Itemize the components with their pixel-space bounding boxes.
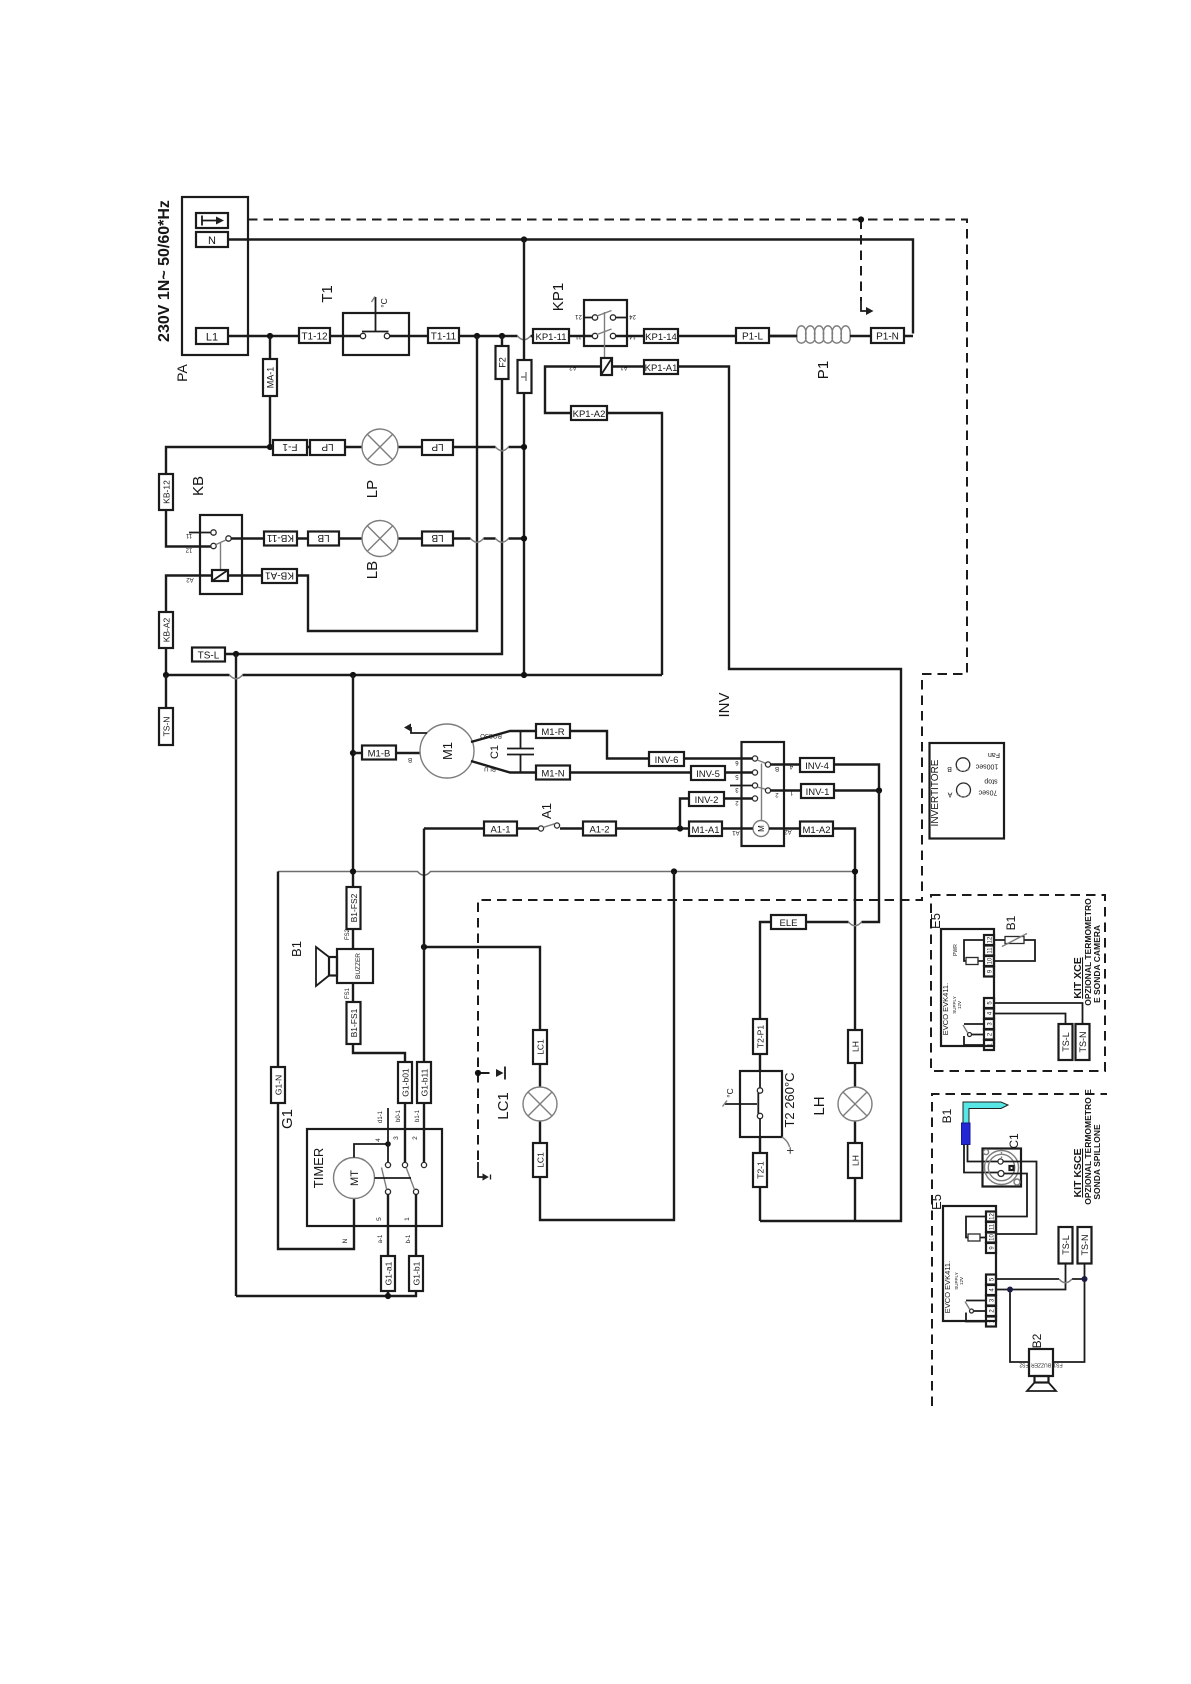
node TS-N/B2 — [1082, 1276, 1088, 1282]
label P1-N — [871, 328, 904, 343]
svg-text:TS-N: TS-N — [1078, 1032, 1088, 1053]
terminal TS-N — [165, 675, 167, 744]
wire hop over N fuse line — [518, 336, 531, 340]
label LB right — [422, 532, 453, 546]
svg-text:E SONDA CAMERA: E SONDA CAMERA — [1092, 925, 1102, 1003]
wire KB coil A1 to T1 feed — [228, 336, 477, 631]
svg-text:FS1: FS1 — [345, 987, 351, 999]
label P1-L — [736, 328, 769, 343]
svg-text:MA-1: MA-1 — [266, 367, 276, 389]
chassis earth arrow (bottom of dashed) — [478, 1162, 483, 1177]
svg-text:LP: LP — [364, 480, 381, 498]
svg-text:LH: LH — [811, 1096, 828, 1115]
wire A1-2 to fan — [560, 827, 753, 829]
svg-text:EVCO EVK411.: EVCO EVK411. — [943, 1261, 952, 1313]
svg-text:A1: A1 — [539, 803, 554, 819]
svg-text:LH: LH — [851, 1041, 861, 1052]
svg-text:KP1: KP1 — [550, 283, 567, 311]
wire N line — [228, 240, 913, 334]
label LB left — [308, 532, 339, 546]
internal sensor loop — [964, 940, 984, 961]
wire terminal4 to TS-L and B2 — [996, 1264, 1066, 1363]
label INV-6 — [649, 752, 684, 766]
svg-text:°C: °C — [379, 298, 389, 308]
svg-text:INV-6: INV-6 — [655, 755, 679, 766]
svg-text:KP1-14: KP1-14 — [645, 332, 677, 343]
terminal 1 — [986, 1317, 996, 1327]
thermostat T2 — [740, 1071, 782, 1137]
node bus/neutral drop — [521, 672, 527, 678]
svg-text:FS1: FS1 — [1053, 1362, 1062, 1368]
wire hop ELE over LH line — [849, 922, 862, 926]
wire M1-R lead — [471, 731, 752, 759]
svg-text:KP1-A2: KP1-A2 — [573, 409, 606, 420]
label LP right — [422, 440, 453, 455]
svg-text:4: 4 — [375, 1138, 382, 1142]
svg-text:3: 3 — [393, 1136, 400, 1140]
capacitor C1 — [507, 731, 534, 773]
wire MA-1 branch — [269, 336, 271, 447]
svg-text:N: N — [208, 235, 216, 247]
svg-text:E5: E5 — [928, 913, 943, 929]
svg-text:KB: KB — [190, 476, 207, 496]
wire T1 to KP1 — [390, 335, 796, 337]
terminal TS-L (kit KSCE) — [1059, 1227, 1073, 1264]
label LP left — [310, 440, 345, 455]
label INV-5 — [691, 766, 725, 780]
svg-text:100sec: 100sec — [975, 763, 998, 770]
label G1-b01 — [398, 1062, 412, 1103]
svg-text:TS-L: TS-L — [1061, 1235, 1071, 1255]
svg-text:LP: LP — [431, 441, 444, 452]
terminal 11 — [986, 1222, 996, 1232]
svg-text:LB: LB — [317, 532, 330, 543]
wire LC1 branch — [424, 872, 674, 1221]
wire M1-N lead — [471, 761, 752, 773]
terminal 3 — [986, 1296, 996, 1306]
svg-text:b1-1: b1-1 — [415, 1109, 421, 1122]
svg-text:B: B — [775, 765, 779, 771]
wire A1-1 drop to timer pin2 — [423, 829, 425, 1163]
terminal 4 — [984, 1009, 994, 1019]
svg-text:11: 11 — [185, 532, 192, 538]
terminal 3 — [984, 1019, 994, 1029]
terminal TS-N (kit XCE) — [1076, 1024, 1090, 1060]
svg-text:LC1: LC1 — [536, 1152, 546, 1168]
svg-text:G1-a1: G1-a1 — [384, 1261, 394, 1285]
svg-text:12: 12 — [990, 1213, 996, 1220]
heater ELE — [771, 915, 806, 929]
svg-text:KP1-11: KP1-11 — [536, 332, 567, 343]
svg-text:TS-N: TS-N — [1080, 1235, 1090, 1256]
wire hop LP over F2 line — [496, 447, 509, 451]
svg-text:INV-2: INV-2 — [695, 795, 719, 806]
label F-1 — [273, 440, 307, 455]
label T2-P1 — [753, 1019, 767, 1054]
svg-text:b-1: b-1 — [406, 1234, 412, 1243]
svg-text:B1-FS1: B1-FS1 — [349, 1008, 359, 1037]
svg-text:INV-1: INV-1 — [806, 787, 830, 798]
probe wires to connector — [964, 1145, 998, 1173]
timer motor MT — [334, 1158, 375, 1199]
wire terminal5 to TS-N and B2 — [996, 1264, 1085, 1363]
svg-text:M1-A2: M1-A2 — [803, 825, 831, 836]
label M1-R — [536, 724, 570, 738]
svg-text:N: N — [342, 1238, 349, 1243]
svg-text:B: B — [408, 756, 412, 762]
svg-text:12: 12 — [988, 936, 994, 943]
node: earth branch junction — [858, 216, 864, 222]
wire KP1 coil A1 to heater loop — [612, 367, 901, 1222]
knob B — [956, 758, 970, 772]
svg-text:F-1: F-1 — [282, 441, 297, 452]
svg-text:11: 11 — [575, 333, 582, 339]
svg-text:G1-b11: G1-b11 — [420, 1068, 430, 1096]
lamp LH branch — [848, 1030, 862, 1063]
svg-text:B: B — [947, 765, 952, 772]
svg-text:2: 2 — [412, 1136, 419, 1140]
label M1-A1 — [689, 822, 722, 837]
svg-text:T1: T1 — [319, 285, 336, 303]
svg-text:G1-b1: G1-b1 — [412, 1261, 422, 1285]
label KB-A2 — [159, 612, 173, 648]
terminal 12 — [984, 935, 994, 945]
svg-text:T2 260°C: T2 260°C — [782, 1072, 797, 1127]
svg-text:11: 11 — [990, 1223, 996, 1230]
wire grey return bus — [278, 872, 855, 876]
wire hops LB row — [471, 539, 509, 543]
svg-text:G1-b01: G1-b01 — [401, 1068, 411, 1097]
wire L1 to T1 — [228, 335, 361, 337]
svg-text:T2-P1: T2-P1 — [756, 1025, 766, 1048]
node bus/LH top — [852, 868, 858, 874]
svg-text:INV-5: INV-5 — [696, 769, 720, 780]
svg-text:INV-4: INV-4 — [805, 761, 829, 772]
svg-text:d1-1: d1-1 — [378, 1110, 384, 1123]
earth dashed network — [248, 220, 967, 1163]
svg-text:EVCO EVK411.: EVCO EVK411. — [941, 983, 950, 1035]
wire KP1 coil A2 to neutral bus — [545, 367, 662, 676]
svg-text:E5: E5 — [929, 1194, 944, 1210]
label MA-1 — [263, 359, 277, 396]
label B1-FS1 — [347, 1002, 361, 1044]
svg-text:12: 12 — [185, 547, 192, 553]
svg-text:1: 1 — [404, 1217, 411, 1221]
wire neutral bus — [166, 674, 662, 676]
lamp LP — [362, 429, 398, 465]
earth dashed branch at T2 — [480, 1072, 495, 1074]
svg-text:21: 21 — [575, 313, 582, 319]
wire INV-4 output — [771, 765, 880, 791]
terminal L1 — [196, 328, 228, 344]
svg-text:a-1: a-1 — [378, 1234, 384, 1243]
wire INV-1 output — [771, 789, 880, 791]
label M1-N — [536, 766, 570, 780]
svg-text:A1-2: A1-2 — [589, 825, 609, 836]
node LP/F1 junction — [267, 444, 273, 450]
earth dashed branch to P1 — [860, 220, 862, 302]
terminal 12 — [986, 1212, 996, 1222]
knob A — [957, 783, 971, 797]
wire hop bus over TS-L drop — [230, 675, 243, 679]
label A1-2 — [583, 822, 616, 836]
svg-text:T1-11: T1-11 — [431, 332, 457, 343]
internal relay contact — [966, 1301, 986, 1322]
kit KSCE dashed enclosure (top+left) — [932, 1094, 1107, 1406]
wire LP row left (KB-12 feed) — [166, 447, 270, 547]
terminal 9 — [984, 967, 994, 977]
svg-text:LP: LP — [321, 441, 334, 452]
label T2-1 — [753, 1153, 767, 1187]
wire pin5 to G1-a1 — [387, 1194, 389, 1296]
label INV-1 — [801, 784, 834, 798]
svg-text:°C: °C — [725, 1088, 735, 1098]
svg-text:INV: INV — [716, 692, 733, 717]
wire INV-2 branch — [680, 799, 752, 829]
terminal 10 — [986, 1233, 996, 1243]
node B2 tap — [1007, 1287, 1013, 1293]
earth arrow at M1 — [411, 727, 427, 733]
svg-text:TS-L: TS-L — [1061, 1032, 1071, 1052]
svg-text:70sec: 70sec — [978, 788, 997, 795]
node T1-11 branch — [474, 333, 480, 339]
controller EVCO (spillone) — [943, 1206, 996, 1321]
svg-text:B1-FS2: B1-FS2 — [349, 893, 359, 922]
svg-text:P1-L: P1-L — [742, 332, 764, 343]
label KP1-11 — [533, 329, 569, 343]
node G1-a1/bus — [385, 1293, 391, 1299]
svg-text:P1: P1 — [815, 361, 832, 379]
svg-text:10: 10 — [988, 957, 994, 964]
thermostat T1 — [343, 313, 409, 355]
svg-text:M1: M1 — [440, 742, 455, 760]
svg-text:LC1: LC1 — [536, 1039, 546, 1055]
terminal 4 — [986, 1285, 996, 1295]
internal sensor loop — [966, 1217, 986, 1238]
node bus/B1 branch — [350, 672, 356, 678]
svg-text:12V: 12V — [957, 1001, 962, 1009]
terminal 10 — [984, 956, 994, 966]
node LC1 tap — [421, 944, 427, 950]
node N branch — [521, 236, 527, 242]
label KP1-A1 — [644, 360, 678, 374]
svg-text:KB-A1: KB-A1 — [265, 570, 294, 581]
fuse F4 (neutral) — [518, 360, 532, 393]
kit XCE dashed enclosure — [931, 895, 1105, 1071]
wire TS-L drop to timer bottom bus — [235, 654, 237, 1296]
wire terminal5 to TS-N — [994, 1003, 1083, 1026]
svg-text:LB: LB — [431, 532, 444, 543]
wire pin1 to G1-b1 and bottom bus — [236, 1194, 416, 1296]
wire B1 FS1 to timer pin3 — [353, 983, 405, 1162]
label G1-b1 — [409, 1256, 423, 1291]
svg-text:b0-1: b0-1 — [396, 1109, 402, 1122]
svg-text:10: 10 — [990, 1234, 996, 1241]
node INV-1/INV-4 join — [876, 787, 882, 793]
earth arrow at P1 — [861, 301, 866, 311]
relay KP1 coil — [601, 358, 612, 375]
label KP1-A2 — [571, 406, 607, 420]
inverter timer box INVERTITORE — [930, 743, 1005, 839]
svg-text:5: 5 — [376, 1217, 383, 1221]
svg-text:12V: 12V — [959, 1277, 964, 1285]
svg-text:A2: A2 — [186, 576, 194, 582]
svg-text:M1-B: M1-B — [368, 749, 391, 760]
label T1-11 — [428, 328, 459, 343]
wire KB coil A2 to TS bus — [166, 576, 212, 676]
terminal earth (arrow) — [196, 213, 228, 228]
wire terminal4 to TS-L — [994, 1014, 1066, 1027]
node TS-L junction — [233, 651, 239, 657]
wire F2 branch to TS-L row — [225, 336, 502, 654]
svg-text:B1: B1 — [940, 1108, 954, 1123]
svg-text:KB-A2: KB-A2 — [162, 617, 172, 642]
node KB-A2/bus — [163, 672, 169, 678]
connector PA — [182, 197, 248, 355]
earth arrow at T2 — [496, 1069, 504, 1077]
fuse F2 — [496, 346, 509, 379]
svg-text:LH: LH — [851, 1155, 861, 1166]
label LC1 bottom — [533, 1143, 547, 1177]
svg-text:stop: stop — [984, 777, 997, 784]
svg-text:PWR: PWR — [953, 944, 959, 956]
svg-text:TIMER: TIMER — [311, 1148, 326, 1188]
probe B1 thermistor — [994, 940, 1035, 961]
label G1-N — [271, 1067, 285, 1103]
label INV-2 — [689, 792, 724, 806]
svg-text:BLU: BLU — [484, 765, 496, 771]
svg-text:A1: A1 — [732, 829, 740, 835]
lamp LB — [362, 521, 398, 557]
svg-text:KP1-A1: KP1-A1 — [645, 363, 678, 374]
label M1-A2 — [800, 822, 833, 837]
terminal TS-L (kit XCE) — [1059, 1024, 1073, 1060]
svg-text:LB: LB — [364, 561, 381, 579]
svg-text:BUZZER: BUZZER — [355, 953, 362, 979]
relay KB coil — [212, 570, 228, 581]
svg-text:T1-12: T1-12 — [301, 332, 328, 343]
terminal 1 — [984, 1040, 994, 1050]
terminal 5 — [986, 1275, 996, 1285]
svg-text:G1: G1 — [279, 1109, 296, 1129]
node bus/B1 cross — [350, 868, 356, 874]
wire G1-N return — [278, 872, 354, 1250]
motor M1 — [420, 724, 474, 778]
wire fan A2 to LH branch — [769, 829, 855, 1222]
node MT/pin4 — [385, 1141, 391, 1147]
label INV-4 — [800, 758, 834, 772]
label M1-B — [362, 746, 396, 760]
terminal 2 — [986, 1306, 996, 1316]
svg-text:MT: MT — [349, 1170, 361, 1186]
svg-text:SONDA SPILLONE: SONDA SPILLONE — [1092, 1124, 1102, 1200]
svg-text:BUZZER: BUZZER — [1031, 1362, 1051, 1368]
svg-text:24: 24 — [629, 313, 636, 319]
svg-text:A1-1: A1-1 — [490, 825, 510, 836]
wires connector to controller — [996, 1162, 1037, 1235]
label A1-1 — [484, 822, 517, 836]
label LC1 top — [533, 1030, 547, 1064]
svg-text:P1-N: P1-N — [876, 332, 899, 343]
svg-text:C1: C1 — [489, 745, 501, 759]
timer contacts — [385, 1162, 390, 1167]
node LB to neutral — [521, 535, 527, 541]
svg-text:ROSSO: ROSSO — [480, 732, 502, 738]
node LP to neutral — [521, 444, 527, 450]
lamp LC1 — [523, 1087, 557, 1121]
label G1-a1 — [381, 1256, 395, 1291]
fan motor in INV — [753, 821, 769, 837]
svg-text:KB-12: KB-12 — [162, 480, 172, 504]
svg-text:G1-N: G1-N — [274, 1075, 284, 1095]
terminal 9 — [986, 1243, 996, 1253]
label KB-A1 — [262, 569, 297, 583]
svg-text:M1-A1: M1-A1 — [692, 825, 720, 836]
internal relay contact — [964, 1024, 984, 1045]
svg-text:Fan: Fan — [988, 751, 1000, 758]
node: dashed branch junction — [475, 1070, 481, 1076]
terminal TS-L — [192, 648, 225, 662]
svg-text:L1: L1 — [206, 332, 218, 344]
svg-text:F2: F2 — [498, 357, 508, 368]
node F2 tap — [499, 333, 505, 339]
label B1-FS2 — [347, 887, 361, 929]
svg-text:A: A — [947, 791, 952, 798]
node M1-B tap — [350, 750, 356, 756]
svg-text:TS-N: TS-N — [162, 717, 172, 737]
node INV-2 tap — [677, 825, 683, 831]
wire neutral drop with fuse — [523, 240, 525, 676]
terminal 2 — [984, 1030, 994, 1040]
svg-text:M: M — [757, 825, 766, 832]
svg-text:ELE: ELE — [780, 918, 798, 929]
terminal N — [196, 232, 228, 247]
controller EVCO (camera) — [941, 929, 994, 1046]
svg-text:TS-L: TS-L — [198, 651, 220, 662]
svg-text:M1-R: M1-R — [541, 727, 564, 738]
svg-text:M1-N: M1-N — [541, 769, 564, 780]
KB pin 11 stub — [189, 532, 211, 534]
terminal 5 — [984, 998, 994, 1008]
label KP1-14 — [644, 329, 678, 343]
label G1-b11 — [417, 1062, 431, 1103]
switch A1 — [424, 827, 538, 829]
wire LB row — [231, 537, 524, 539]
wire M1-B — [353, 752, 420, 754]
svg-text:LC1: LC1 — [495, 1092, 512, 1120]
svg-text:B1: B1 — [289, 941, 304, 957]
wire ELE feed — [760, 791, 879, 1072]
svg-text:KB-11: KB-11 — [267, 532, 294, 543]
svg-text:INVERTITORE: INVERTITORE — [930, 759, 941, 826]
svg-text:14: 14 — [629, 333, 636, 339]
wire LP row — [270, 446, 524, 448]
svg-text:PA: PA — [174, 364, 190, 382]
label KB-12 — [159, 474, 173, 510]
label T1-12 — [299, 328, 330, 343]
terminal TS-N (kit KSCE) — [1078, 1227, 1092, 1264]
svg-text:B1: B1 — [1004, 915, 1018, 930]
terminal 11 — [984, 946, 994, 956]
wire pin4 stub d1-1 — [387, 1108, 389, 1162]
label KB-11 — [264, 532, 297, 546]
svg-text:T2-1: T2-1 — [756, 1161, 766, 1179]
svg-text:230V 1N~ 50/60*Hz: 230V 1N~ 50/60*Hz — [156, 200, 173, 342]
svg-text:C1: C1 — [1007, 1133, 1021, 1149]
svg-text:11: 11 — [988, 947, 994, 954]
wire hop over TS-L drop — [1059, 1279, 1072, 1283]
svg-text:FS2: FS2 — [1019, 1362, 1028, 1368]
